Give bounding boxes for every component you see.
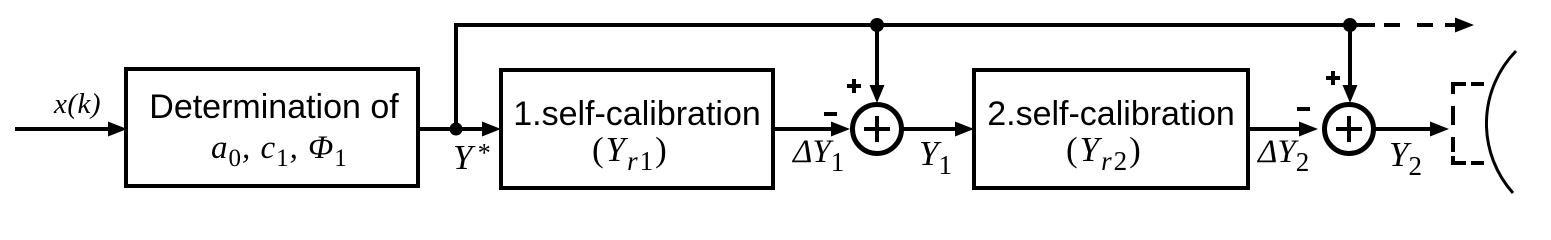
wire input arrow x(k) [15,122,127,137]
block Determination of a0,c1,Phi1 [126,69,418,186]
node Y* junction dot [450,123,463,136]
svg-text:x(k): x(k) [53,88,101,120]
node minus sign at summer 1 [824,112,837,116]
node dot on top line above summer 1 [870,18,884,32]
summer U2 plus inside [1336,116,1362,142]
summer U2 circle [1325,105,1374,154]
node plus sign at summer 2 top input [1326,71,1340,85]
summer U1 plus inside [864,116,890,142]
block 1.self-calibration (Yr1) [501,70,773,188]
wire drop from top line into summer 1 [870,25,885,103]
wire dashed bracket (next stage placeholder) [1453,84,1484,163]
wire summer2 output arrow [1375,122,1449,137]
node dot on top line above summer 2 [1343,18,1357,32]
svg-text:Determination of: Determination of [149,88,399,126]
svg-text:1.self-calibration: 1.self-calibration [513,95,761,133]
summer U1 circle [853,105,902,154]
wire summer1 to box3 [903,122,974,137]
wire dashed continuation of top line with arrow [1357,18,1474,33]
wire box3 to summer 2 [1248,122,1318,137]
wire box1 to box2 with arrow [418,122,501,137]
wire top feedback line [454,23,1375,27]
node minus sign at summer 2 [1297,107,1310,111]
node plus sign at summer 1 top input [847,79,861,93]
block 2.self-calibration (Yr2) [974,70,1248,188]
wire feedback riser [454,25,458,129]
wire arc of next stage circle (cropped) [1486,51,1516,193]
wire drop from top line into summer 2 [1343,25,1358,103]
svg-text:2.self-calibration: 2.self-calibration [987,95,1235,133]
wire box2 to summer 1 [773,122,850,137]
